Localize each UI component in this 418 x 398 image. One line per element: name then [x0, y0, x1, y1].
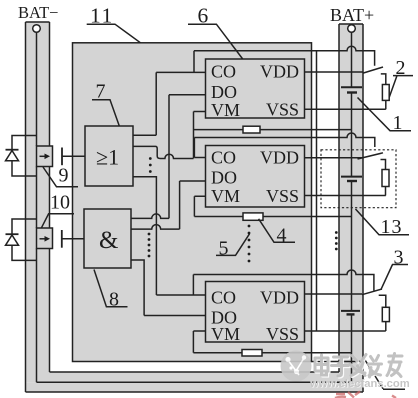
svg-text:VM: VM [211, 186, 240, 206]
transistor Q10 arrow [40, 238, 47, 240]
wire VM3 sense line to rail through R4c [193, 352, 351, 354]
node BAT+ rail bottom gray strip [352, 372, 364, 393]
wire CO2 pin net and control net 2 with hops [194, 133, 374, 158]
dots ellipsis right [335, 231, 338, 234]
watermark red fragment [335, 392, 396, 398]
switch S2 blade [358, 153, 384, 159]
diode D2 triangle [6, 235, 19, 245]
svg-text:9: 9 [59, 165, 69, 187]
wire BAT+ left rail line [338, 24, 340, 372]
wire BAT- center line [36, 32, 38, 382]
wire VDD3 net [305, 293, 363, 295]
watermark logo [281, 351, 312, 382]
svg-text:VSS: VSS [266, 324, 299, 344]
svg-text:6: 6 [198, 4, 209, 28]
transistor Q9 gate bar [61, 148, 63, 166]
label 1 leader [358, 98, 412, 131]
resistor R3 bottom lead [385, 322, 387, 331]
label 2 leader [389, 76, 413, 98]
svg-text:BAT+: BAT+ [330, 5, 374, 25]
IC block U1 [206, 59, 305, 118]
capacitor C1 plate short [347, 91, 357, 93]
diode D2 loop [12, 219, 37, 260]
diode D1 triangle [6, 151, 19, 161]
svg-text:≥1: ≥1 [96, 145, 119, 170]
wire BAT- left rail line [25, 22, 27, 392]
wire bottom bus middle [37, 381, 352, 383]
diode D1 loop [12, 136, 37, 177]
resistor R2' bottom lead [385, 187, 387, 196]
wire CO3 pin net [156, 294, 205, 296]
wire DO3 pin net [144, 315, 205, 317]
node bottom bus gray strip lower [26, 382, 352, 392]
svg-text:CO: CO [211, 147, 236, 167]
resistor R4b [243, 213, 263, 220]
wire BAT+ top bar [339, 23, 363, 25]
resistor R2 top lead [381, 74, 386, 85]
wire CO1 vertical to OR input [133, 72, 156, 135]
label 5 leader [216, 234, 250, 256]
resistor R3 body [382, 307, 389, 321]
wire VM2 sense line to rail through R4b [194, 216, 351, 218]
wire control net 3 with hops [193, 270, 374, 295]
wire AND input A with hop [130, 214, 169, 219]
label 9 leader [43, 167, 78, 187]
watermark CJK text (stylized strokes, embossed) [315, 354, 403, 379]
wire bottom bus outer [26, 391, 364, 393]
diode D2 cathode bar [6, 233, 19, 235]
capacitor C2 plate short [347, 180, 357, 182]
svg-text:13: 13 [381, 216, 403, 238]
wire VSS common vertical [316, 51, 318, 331]
wire OR lower input vertical to CO3 [133, 177, 156, 295]
label 6 leader [188, 24, 243, 59]
terminal BAT+ circle [348, 25, 356, 33]
label 13 leader [356, 209, 410, 235]
wire VM1 pin net [194, 112, 206, 159]
wire box bottom extension to right rail [312, 361, 364, 363]
wire VM3 pin net [193, 331, 205, 353]
dashed box 13 [321, 150, 396, 208]
svg-text:VSS: VSS [266, 186, 299, 206]
svg-text:CO: CO [211, 288, 236, 308]
svg-text:VDD: VDD [260, 288, 299, 308]
transistor Q10 gate bar [61, 230, 63, 248]
wire gate Q10 to AND gate [62, 238, 84, 240]
label 8 leader [94, 270, 128, 307]
resistor R2 bottom lead [385, 100, 387, 109]
svg-text:VSS: VSS [266, 100, 299, 120]
switch S3 blade [362, 289, 382, 295]
svg-text:VDD: VDD [260, 147, 299, 167]
svg-text:11: 11 [90, 4, 114, 28]
capacitor C2 plate long [341, 176, 362, 178]
resistor R3 top lead [379, 295, 386, 307]
resistor R2' body [382, 170, 389, 187]
terminal BAT- circle [33, 25, 41, 33]
dots ellipsis middle [248, 225, 251, 228]
svg-text:CO: CO [211, 62, 236, 82]
svg-text:&: & [99, 227, 118, 254]
node BAT+ rail gray strip [339, 24, 363, 372]
IC block U3 [206, 282, 305, 343]
dots ellipsis left col 1 [148, 157, 338, 262]
switch S1 blade [363, 67, 383, 73]
wire CO1 pin net [156, 71, 205, 73]
op-amp U-AND gate box (&) [84, 209, 131, 268]
wire gate Q9 to OR gate [62, 155, 85, 157]
node BAT- bus lower-left gray strip [26, 372, 37, 382]
svg-text:DO: DO [211, 82, 237, 102]
resistor R4a [243, 126, 260, 133]
wire VSS3 net [305, 330, 386, 332]
node bottom bus gray strip upper [37, 372, 352, 382]
dots ellipsis left col 2 [148, 233, 151, 236]
svg-text:1: 1 [393, 112, 403, 134]
wire VSS1 net [305, 108, 386, 110]
wire VDD1 net [305, 71, 364, 73]
svg-text:2: 2 [396, 57, 406, 79]
svg-text:7: 7 [96, 81, 106, 103]
svg-text:DO: DO [211, 167, 237, 187]
svg-text:8: 8 [109, 289, 119, 311]
wire OR input stub B with hop over DO1 [133, 146, 194, 158]
label 10 leader [42, 214, 75, 228]
resistor R4c [242, 350, 262, 357]
wire bottom bus inner [50, 371, 340, 373]
wire VDD2 net [305, 157, 363, 159]
capacitor C3 plate long [341, 310, 360, 312]
label 3 leader [381, 265, 408, 290]
wire BAT+ center line [351, 32, 353, 382]
IC block 11 outline (protection circuit box) [73, 43, 312, 362]
svg-text:5: 5 [219, 238, 229, 260]
node BAT- bus gray strip [26, 22, 50, 372]
wire VM2 pin net [194, 196, 205, 216]
wire BAT- right rail line [49, 22, 51, 372]
svg-text:4: 4 [277, 225, 287, 247]
op-amp U-OR gate box (>=1) [85, 126, 133, 186]
wire control net 1 (CO1 to switch S1) with hops over rail [194, 46, 375, 72]
svg-text:VM: VM [211, 324, 240, 344]
resistor R2 body [382, 85, 389, 101]
resistor R2' top lead [381, 160, 386, 170]
svg-text:3: 3 [394, 247, 404, 269]
capacitor C1 plate long [341, 86, 362, 88]
label 4 leader [259, 219, 295, 243]
diode D1 cathode bar [6, 149, 19, 151]
IC block U2 [206, 146, 305, 208]
wire AND input B with hop [130, 181, 180, 229]
capacitor C3 plate short [347, 313, 355, 315]
wire BAT+ right rail line [362, 24, 364, 392]
transistor Q10 body [37, 228, 53, 249]
svg-text:www.elecfans.com: www.elecfans.com [309, 378, 410, 390]
wire AND input C to DO3 [131, 260, 144, 316]
transistor Q9 body [37, 146, 53, 167]
svg-text:10: 10 [50, 192, 70, 214]
label 7 leader [92, 100, 119, 126]
wire VM1 sense line to rail through R4a [194, 129, 352, 131]
svg-text:VDD: VDD [260, 62, 299, 82]
transistor Q9 arrow [40, 155, 47, 157]
wire VSS2 net [305, 195, 386, 197]
label 11 leader [87, 24, 141, 43]
wire DO1 pin net [169, 95, 206, 219]
svg-text:BAT−: BAT− [18, 3, 58, 22]
wire BAT- top bar [26, 21, 50, 23]
label 12 leader (number cropped) [364, 358, 406, 390]
wire DO2 pin net [180, 180, 206, 182]
svg-text:VM: VM [211, 100, 240, 120]
